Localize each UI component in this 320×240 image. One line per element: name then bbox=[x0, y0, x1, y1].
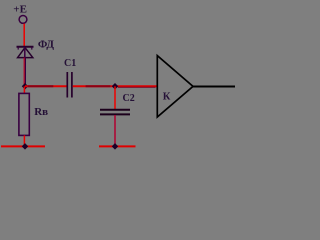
svg-text:С2: С2 bbox=[123, 93, 135, 104]
capacitor C1 left plate bbox=[66, 72, 68, 98]
wire through diode bbox=[24, 47, 26, 58]
photodiode cathode left tick bbox=[17, 47, 19, 50]
capacitor C1 right plate bbox=[71, 72, 73, 98]
wire: C2 bottom plate to ground rail bbox=[114, 115, 116, 146]
wire: resistor bottom to ground rail bbox=[23, 135, 25, 146]
wire: node B down to C2 top plate bbox=[114, 86, 116, 109]
resistor Rv body bbox=[19, 93, 29, 135]
capacitor C2 top plate bbox=[100, 109, 130, 111]
svg-text:К: К bbox=[163, 91, 171, 102]
wire: node A down to resistor bbox=[23, 86, 25, 93]
svg-text:+Е: +Е bbox=[13, 3, 27, 15]
right ground junction dot bbox=[112, 143, 119, 150]
capacitor C2 bottom plate bbox=[100, 113, 130, 115]
svg-text:ФД: ФД bbox=[38, 38, 54, 50]
photodiode VD cathode bar bbox=[17, 46, 34, 48]
wire: diode anode down to node A (red+purple pair) bbox=[23, 58, 25, 86]
svg-text:Rв: Rв bbox=[34, 106, 48, 118]
node A junction dot bbox=[22, 83, 29, 90]
left ground junction dot bbox=[22, 143, 29, 150]
output wire bbox=[193, 86, 235, 88]
svg-text:С1: С1 bbox=[64, 58, 76, 69]
left ground rail bbox=[1, 145, 45, 147]
darker wire stretch artifacts bbox=[28, 85, 54, 87]
wire: node A to C1 left plate bbox=[25, 85, 67, 87]
wire: C1 right plate to node B / amp input bbox=[73, 85, 158, 87]
node B junction dot bbox=[112, 83, 119, 90]
photodiode cathode right tick bbox=[31, 47, 33, 50]
photodiode triangle (anode) bbox=[18, 48, 33, 58]
terminal circle (supply input) bbox=[19, 16, 27, 24]
wire: terminal to photodiode cathode bbox=[23, 24, 25, 46]
op-amp / amplifier K triangle bbox=[157, 56, 193, 117]
right ground rail bbox=[99, 145, 136, 147]
